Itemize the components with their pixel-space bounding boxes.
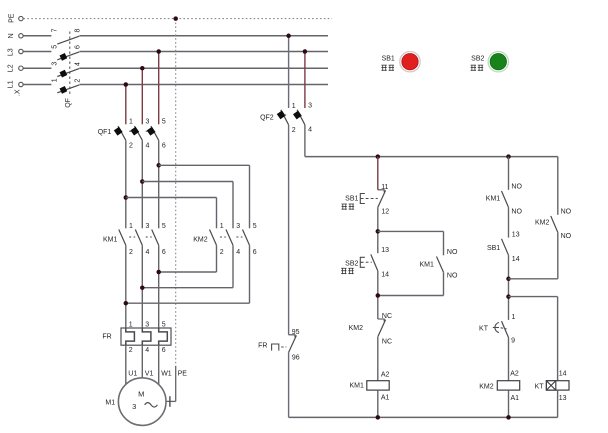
svg-text:KM2: KM2: [193, 236, 208, 243]
svg-text:NO: NO: [511, 184, 522, 191]
svg-text:A1: A1: [381, 395, 390, 402]
svg-text:2: 2: [220, 249, 224, 256]
svg-text:KM1: KM1: [486, 196, 501, 203]
svg-text:2: 2: [129, 249, 133, 256]
svg-text:3: 3: [146, 118, 150, 125]
svg-text:KM2: KM2: [535, 219, 550, 226]
svg-text:QF: QF: [65, 98, 72, 108]
svg-text:4: 4: [146, 143, 150, 150]
svg-text:A2: A2: [381, 371, 390, 378]
svg-text:SB2: SB2: [345, 260, 358, 267]
svg-text:M1: M1: [105, 400, 115, 407]
svg-text:3: 3: [236, 223, 240, 230]
svg-text:A2: A2: [510, 370, 519, 377]
svg-text:11: 11: [381, 184, 388, 191]
svg-text:QF1: QF1: [98, 129, 112, 136]
svg-text:1: 1: [129, 118, 133, 125]
svg-text:KT: KT: [535, 383, 545, 390]
svg-text:1: 1: [292, 103, 296, 110]
svg-text:5: 5: [253, 223, 257, 230]
svg-text:12: 12: [381, 208, 389, 215]
svg-text:6: 6: [75, 45, 82, 49]
svg-text:9: 9: [511, 338, 515, 345]
svg-text:L2: L2: [8, 64, 15, 72]
svg-text:NO: NO: [511, 209, 522, 216]
svg-text:KT: KT: [479, 325, 489, 332]
svg-text:95: 95: [292, 329, 300, 336]
svg-text:L1: L1: [8, 80, 15, 88]
svg-text:13: 13: [512, 231, 520, 238]
svg-text:1: 1: [220, 223, 224, 230]
svg-text:SB2: SB2: [471, 55, 484, 62]
svg-text:13: 13: [381, 247, 389, 254]
svg-text:3: 3: [51, 62, 58, 66]
svg-text:6: 6: [253, 249, 257, 256]
svg-text:5: 5: [162, 223, 166, 230]
svg-text:4: 4: [146, 249, 150, 256]
svg-text:5: 5: [51, 45, 58, 49]
svg-text:2: 2: [129, 143, 133, 150]
svg-text:NC: NC: [382, 338, 392, 345]
svg-text:5: 5: [162, 322, 166, 329]
svg-text:.X: .X: [15, 89, 22, 96]
svg-text:KM1: KM1: [103, 236, 118, 243]
svg-text:NO: NO: [561, 209, 572, 216]
svg-text:2: 2: [129, 347, 133, 354]
svg-text:6: 6: [162, 249, 166, 256]
svg-text:7: 7: [51, 28, 58, 32]
svg-text:14: 14: [381, 272, 389, 279]
svg-text:2: 2: [292, 127, 296, 134]
svg-text:U1: U1: [128, 370, 137, 377]
svg-text:KM2: KM2: [349, 325, 364, 332]
svg-text:5: 5: [162, 118, 166, 125]
svg-text:KM1: KM1: [349, 383, 364, 390]
svg-text:W1: W1: [161, 370, 172, 377]
svg-text:FR: FR: [258, 343, 267, 350]
svg-text:14: 14: [559, 370, 567, 377]
svg-text:1: 1: [512, 314, 516, 321]
svg-text:N: N: [8, 33, 15, 38]
svg-text:A1: A1: [511, 395, 520, 402]
svg-text:M: M: [138, 390, 144, 399]
svg-text:NO: NO: [561, 233, 572, 240]
svg-text:FR: FR: [102, 333, 111, 340]
svg-text:NC: NC: [382, 313, 392, 320]
svg-text:KM2: KM2: [479, 383, 494, 390]
svg-text:4: 4: [308, 127, 312, 134]
svg-text:13: 13: [559, 395, 567, 402]
svg-text:PE: PE: [8, 13, 15, 23]
svg-text:1: 1: [129, 223, 133, 230]
svg-text:3: 3: [146, 223, 150, 230]
svg-text:3: 3: [145, 322, 149, 329]
svg-text:6: 6: [162, 143, 166, 150]
svg-text:PE: PE: [178, 370, 188, 377]
svg-text:2: 2: [75, 79, 82, 83]
svg-text:NO: NO: [447, 273, 458, 280]
svg-text:14: 14: [512, 256, 520, 263]
svg-text:6: 6: [162, 347, 166, 354]
svg-text:KM1: KM1: [419, 262, 434, 269]
svg-text:NO: NO: [447, 249, 458, 256]
svg-text:1: 1: [51, 78, 58, 82]
svg-text:SB1: SB1: [487, 245, 500, 252]
svg-text:4: 4: [236, 249, 240, 256]
svg-text:1: 1: [129, 322, 133, 329]
svg-text:4: 4: [75, 62, 82, 66]
svg-text:3: 3: [308, 102, 312, 109]
svg-text:SB1: SB1: [382, 55, 395, 62]
svg-text:QF2: QF2: [260, 115, 274, 122]
svg-text:L3: L3: [8, 48, 15, 56]
svg-text:8: 8: [75, 28, 82, 32]
svg-text:V1: V1: [145, 370, 154, 377]
svg-text:96: 96: [292, 355, 300, 362]
svg-text:4: 4: [145, 347, 149, 354]
svg-text:3: 3: [132, 402, 136, 411]
svg-text:SB1: SB1: [345, 196, 358, 203]
